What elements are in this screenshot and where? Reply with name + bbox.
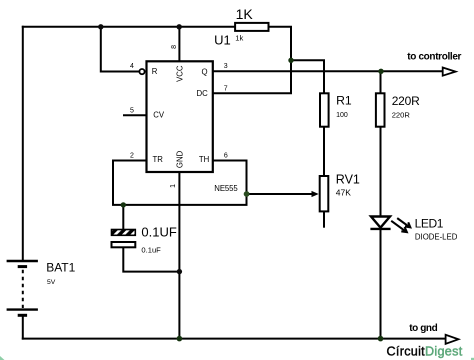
svg-text:6: 6: [224, 153, 228, 160]
svg-text:5V: 5V: [47, 279, 56, 286]
svg-text:LED1: LED1: [415, 217, 444, 231]
svg-text:R: R: [152, 67, 158, 76]
svg-text:1k: 1k: [235, 33, 243, 42]
svg-text:BAT1: BAT1: [46, 261, 75, 275]
svg-text:1K: 1K: [236, 6, 254, 22]
svg-text:Q: Q: [202, 67, 208, 76]
svg-text:5: 5: [130, 108, 134, 115]
svg-text:RV1: RV1: [336, 173, 360, 187]
svg-text:to gnd: to gnd: [409, 323, 437, 334]
svg-text:2: 2: [130, 153, 134, 160]
svg-text:GND: GND: [175, 150, 184, 168]
svg-text:DIODE-LED: DIODE-LED: [415, 233, 458, 242]
svg-text:8: 8: [171, 45, 178, 49]
svg-text:TR: TR: [153, 155, 164, 164]
svg-text:220R: 220R: [392, 110, 411, 119]
svg-text:DC: DC: [197, 89, 209, 98]
svg-text:U1: U1: [214, 32, 231, 47]
svg-text:VCC: VCC: [175, 65, 184, 82]
svg-text:TH: TH: [199, 155, 209, 164]
svg-text:220R: 220R: [392, 94, 420, 108]
svg-text:to controller: to controller: [407, 52, 461, 63]
svg-text:0.1UF: 0.1UF: [141, 225, 176, 240]
svg-text:47K: 47K: [336, 188, 351, 198]
svg-text:CV: CV: [153, 111, 165, 120]
svg-text:R1: R1: [336, 93, 352, 107]
svg-text:NE555: NE555: [214, 184, 238, 193]
svg-text:1: 1: [170, 184, 177, 188]
svg-text:CírcuitDigest: CírcuitDigest: [387, 345, 463, 359]
svg-text:4: 4: [130, 63, 134, 70]
svg-text:7: 7: [224, 85, 228, 92]
svg-text:100: 100: [336, 112, 348, 119]
svg-text:0.1uF: 0.1uF: [141, 245, 161, 254]
svg-text:3: 3: [224, 63, 228, 70]
